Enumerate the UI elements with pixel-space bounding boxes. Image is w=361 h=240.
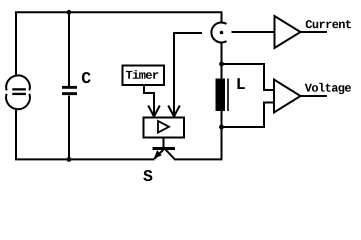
driver triangle symbol — [158, 121, 169, 133]
AC source lower bar — [12, 93, 26, 95]
wire: capacitor branch upper — [68, 11, 70, 86]
wire: upper tap to voltage buffer — [222, 64, 274, 90]
wire: feedback from sensor to driver — [174, 33, 202, 115]
AC source upper bar — [12, 88, 26, 90]
arrowhead into driver from timer — [148, 106, 160, 117]
wire: capacitor branch lower — [68, 96, 70, 160]
AC source G1 bottom arc — [6, 94, 30, 109]
switch S base bar — [153, 147, 176, 150]
wire: sensor to current buffer — [232, 31, 275, 33]
wire: current output — [301, 31, 328, 33]
current buffer amp triangle — [275, 16, 301, 48]
switch S emitter arrowhead — [155, 151, 161, 158]
svg-text:Timer: Timer — [125, 69, 158, 83]
junction top of inductor branch — [219, 62, 224, 67]
switch S collector diagonal — [166, 150, 175, 159]
inductor L core line — [227, 79, 229, 112]
wire: voltage output — [301, 95, 328, 97]
svg-text:Voltage: Voltage — [305, 82, 352, 96]
current sensor dot — [220, 31, 224, 35]
wire: left lower + bottom left segment — [16, 109, 155, 160]
wire: top bus from left corner to right branch — [16, 12, 222, 76]
capacitor C bottom plate — [62, 92, 77, 95]
driver box U2 — [144, 118, 185, 138]
voltage buffer amp triangle — [274, 80, 301, 113]
junction bottom of inductor branch — [219, 125, 224, 130]
AC source G1 top arc — [6, 75, 30, 90]
current sensor circle — [211, 23, 226, 43]
wire: driver to switch base — [163, 138, 165, 148]
svg-text:L: L — [236, 75, 246, 94]
inductor L body — [216, 79, 226, 112]
wire: lower tap to voltage buffer — [222, 103, 274, 128]
timer box U1 — [123, 66, 165, 86]
wire: bottom right segment + right vertical — [174, 42, 222, 159]
svg-text:Current: Current — [305, 18, 352, 32]
wire: timer to driver — [144, 86, 154, 115]
svg-text:S: S — [143, 167, 153, 186]
arrowhead into driver from sensor — [168, 106, 180, 117]
junction bottom of capacitor branch — [67, 157, 72, 162]
junction top of capacitor branch — [67, 10, 72, 15]
capacitor C top plate — [62, 86, 77, 89]
switch S emitter diagonal — [154, 150, 163, 159]
svg-text:C: C — [81, 69, 91, 88]
